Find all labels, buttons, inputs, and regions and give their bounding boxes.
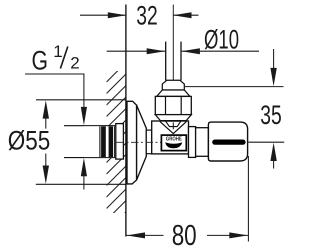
riser pipe centerline (32 dim right extension) — [172, 5, 174, 81]
svg-text:35: 35 — [260, 100, 282, 130]
G1/2 lower arrow up to thread bottom — [81, 158, 87, 176]
O55 up arrow — [43, 100, 49, 118]
35 down arrow — [273, 49, 275, 69]
dim O10: arrows to pipe — [107, 50, 259, 52]
O55 down arrow — [43, 166, 49, 184]
valve body — [152, 121, 189, 154]
nut lower collar — [155, 115, 191, 121]
svg-text:80: 80 — [172, 220, 197, 250]
wall face line — [125, 5, 127, 237]
V center dash — [172, 123, 174, 130]
dim 35: top extension line — [185, 86, 284, 88]
thread body white — [84, 126, 116, 157]
dim 32: dimension line and arrows — [80, 14, 199, 16]
V seat — [166, 121, 181, 126]
svg-text:32: 32 — [136, 0, 158, 30]
stem neck — [196, 128, 209, 157]
compression nut — [155, 96, 191, 114]
G1/2 leader vertical + arrow down to thread top — [83, 74, 85, 108]
dim O55: extension lines — [36, 100, 126, 185]
neck between cone and body — [146, 130, 151, 154]
GROHE label plate — [161, 135, 186, 151]
thread ribs — [99, 126, 101, 157]
svg-text:2: 2 — [70, 53, 79, 72]
thread G1/2 extension lines / cylinder edges — [64, 125, 116, 127]
wall hatching — [107, 62, 127, 232]
G1/2 leader underline — [25, 73, 84, 75]
GROHE swoosh — [165, 142, 182, 148]
handle — [208, 122, 247, 161]
svg-text:1: 1 — [53, 42, 62, 61]
handle groove — [215, 140, 243, 145]
dim 80 line + arrows — [126, 234, 247, 236]
escutcheon cone — [137, 105, 147, 180]
escutcheon flange face ring (O55) — [127, 101, 137, 184]
dim 80: right extension line — [247, 156, 249, 242]
ferrule flare — [157, 90, 190, 96]
svg-text:GROHE: GROHE — [166, 137, 182, 143]
stem ring — [189, 127, 196, 158]
riser pipe walls (O10) — [165, 42, 167, 81]
svg-text:G: G — [32, 45, 49, 75]
svg-text:Ø55: Ø55 — [8, 126, 51, 156]
compression ferrule on pipe — [162, 80, 184, 90]
horizontal axis centerline — [117, 141, 208, 143]
body V-notch — [160, 122, 186, 134]
svg-text:Ø10: Ø10 — [204, 24, 239, 54]
thread collar ring — [116, 124, 124, 160]
35 bottom extension line (axis level) — [248, 141, 284, 143]
35 up arrow — [270, 143, 276, 161]
